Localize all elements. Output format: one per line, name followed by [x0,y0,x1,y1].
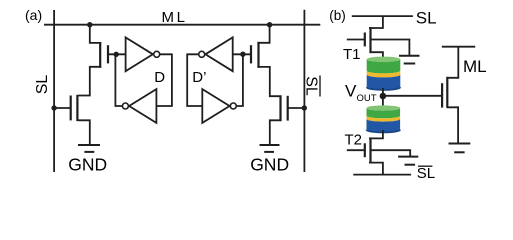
svg-text:SL: SL [303,76,320,96]
wire M4 source to ground [270,120,282,144]
wire ML rail (top horizontal) [44,24,320,26]
ground T2 (symbol) [398,157,418,165]
node Vout [380,93,387,100]
svg-text:(b): (b) [329,8,346,23]
wire SL rail top (b) [352,15,413,17]
wire T1 body to ground [372,40,410,56]
wire Vout to M5 gate [383,95,442,97]
transistor T2 (source to SL-bar rail) [347,137,383,174]
overline of SL-bar bottom label [418,165,432,167]
ground M5 (symbol) [449,144,471,153]
svg-text:D: D [154,69,165,86]
ground T1 (symbol) [399,56,420,64]
svg-text:V: V [345,82,357,101]
node SL junction [51,105,56,110]
svg-text:SL: SL [417,165,435,182]
transistor M2 (left access, gate to SL) [54,95,77,121]
node SL-bar junction [302,105,307,110]
svg-text:SL: SL [34,75,51,95]
inverter U2 (latch D, bottom, points left) [122,89,156,123]
label Vout [345,82,377,105]
wire latch D' left coupling [187,54,202,106]
node ML left junction [87,22,92,27]
transistor T1 (drain to SL) [347,16,383,53]
wire M1 source to M2 drain [78,67,101,96]
wire T2 body to ground [372,150,411,156]
svg-text:GND: GND [68,155,107,175]
node D' (latch input, dot) [240,52,245,57]
wire latch D left coupling [115,54,122,106]
wire Vout to memristor R2 [382,96,384,110]
transistor M1 (left pass, gate on right) [90,25,126,68]
wire SL-bar rail bottom (b) [353,174,411,176]
wire SL rail (left vertical) [53,10,55,172]
wire M3 source to M4 drain [257,67,281,96]
transistor M5 (output, gate at Vout) [442,47,458,143]
ground left (symbol) [78,145,100,152]
memristor R2 (bottom pillar) [367,105,401,132]
svg-text:(a): (a) [25,7,42,23]
wire T1 source to memristor R1 [372,52,383,59]
transistor M4 (right access, gate to SL-bar) [281,96,305,122]
transistor M3 (right pass, gate on left) [233,25,270,68]
svg-text:GND: GND [250,155,289,175]
inverter U3 (latch D', top, points left) [199,37,233,71]
wire latch D' right coupling [236,54,243,106]
inverter U1 (latch D, top, points right) [126,37,160,71]
svg-text:T1: T1 [343,46,361,63]
node D (latch input, dot) [114,52,119,57]
inverter U4 (latch D', bottom, points right) [202,89,236,123]
svg-text:D’: D’ [192,69,206,86]
wire SL-bar rail (right vertical) [303,10,305,172]
svg-text:ML: ML [463,57,487,76]
svg-text:ML: ML [162,9,188,26]
svg-text:OUT: OUT [357,93,377,104]
wire ML rail (b) [442,46,475,48]
svg-text:T2: T2 [345,131,363,148]
memristor R1 (top pillar) [367,57,401,90]
node ML right junction [267,22,272,27]
wire M2 source to ground [78,120,89,144]
svg-text:SL: SL [416,8,437,27]
overline of SL-bar label [319,76,321,97]
wire R1 to Vout node [382,88,384,96]
ground right (symbol) [260,145,280,152]
wire R2 to T2 drain [369,130,383,138]
wire latch D right coupling [156,54,172,106]
